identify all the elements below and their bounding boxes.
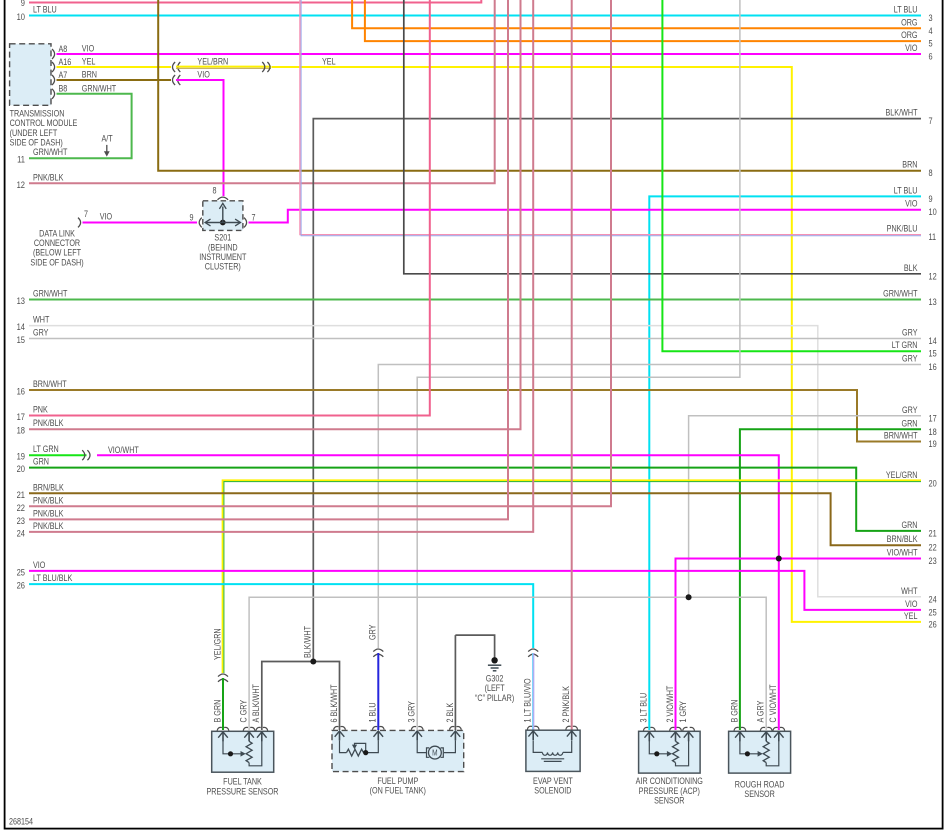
ACP sensor pin 2 entry [670, 727, 675, 730]
svg-text:1 LT BLU/VIO: 1 LT BLU/VIO [523, 678, 533, 722]
svg-text:VIO/WHT: VIO/WHT [108, 445, 139, 455]
svg-text:G302: G302 [486, 674, 504, 684]
svg-text:LT BLU: LT BLU [894, 186, 918, 196]
wire 19 LT GRN stub [29, 454, 87, 456]
svg-text:8: 8 [212, 186, 216, 196]
wire BRN vertical from top to right 8 [158, 0, 921, 171]
TCM pin B8 [52, 89, 55, 99]
rough road sensor pin C entry [773, 727, 778, 730]
wire BLK from fuel pump pin 2 up [454, 635, 456, 730]
svg-text:WHT: WHT [33, 315, 49, 325]
wire VIO from connector down to S201 pin 8 [176, 80, 224, 196]
svg-text:GRY: GRY [33, 328, 49, 338]
svg-text:VIO: VIO [905, 199, 917, 209]
svg-text:14: 14 [17, 321, 26, 332]
wire YEL to right 26 [272, 67, 922, 622]
fuel tank pressure sensor box [212, 731, 274, 772]
svg-text:6 BLK/WHT: 6 BLK/WHT [329, 684, 339, 722]
wire GRY splice: fuel tank pin C to rough road pin A and right 17/24 [249, 597, 766, 730]
svg-text:ORG: ORG [901, 30, 917, 40]
fuel tank sensor pin B entry [217, 727, 222, 730]
svg-text:GRY: GRY [368, 624, 378, 640]
wire GRN/WHT from TCM pin B8 loop to wire 11 [29, 94, 132, 158]
svg-text:VIO: VIO [33, 560, 45, 570]
EVAP vent solenoid box [526, 730, 580, 771]
svg-text:EVAP VENT: EVAP VENT [533, 776, 573, 786]
wire VIO/WHT right 23 from ACP pin 2 corner [676, 559, 922, 731]
svg-text:YEL/GRN: YEL/GRN [886, 470, 918, 480]
data link connector pin 7 [78, 218, 81, 228]
svg-text:LT GRN: LT GRN [33, 445, 59, 455]
wire LT BLU right 9 corner down to ACP sensor pin 3 [649, 196, 921, 730]
svg-text:DATA LINK: DATA LINK [39, 229, 75, 239]
svg-text:2 PNK/BLK: 2 PNK/BLK [561, 685, 571, 722]
svg-text:A/T: A/T [102, 134, 113, 144]
fuel tank sensor potentiometer [223, 741, 241, 754]
svg-text:BRN/BLK: BRN/BLK [33, 483, 64, 493]
rough road sensor pin A entry [760, 727, 765, 730]
svg-text:8: 8 [929, 169, 933, 179]
svg-text:26: 26 [17, 580, 26, 591]
svg-text:YEL/BRN: YEL/BRN [197, 57, 228, 67]
wire BLK/WHT right 7 from corner down to fuel-pump splice [313, 119, 921, 662]
splice S201 box [203, 201, 243, 231]
svg-text:PNK/BLK: PNK/BLK [33, 509, 64, 519]
svg-text:LT BLU: LT BLU [33, 5, 57, 15]
svg-text:YEL: YEL [322, 57, 336, 67]
svg-text:16: 16 [17, 386, 26, 397]
svg-text:10: 10 [929, 208, 938, 218]
wire BLK/WHT splice to fuel tank pin A and fuel pump pin 6 [262, 662, 340, 731]
svg-text:WHT: WHT [901, 586, 917, 596]
fuel pump box [332, 730, 464, 771]
svg-text:BRN: BRN [902, 160, 917, 170]
svg-text:12: 12 [929, 272, 938, 282]
svg-text:SIDE OF DASH): SIDE OF DASH) [10, 138, 64, 148]
svg-text:9: 9 [189, 213, 193, 223]
svg-text:11: 11 [17, 154, 25, 165]
svg-text:PNK/BLK: PNK/BLK [33, 419, 64, 429]
svg-text:YEL/GRN: YEL/GRN [213, 628, 223, 660]
svg-text:BRN: BRN [82, 70, 97, 80]
wire YEL/GRN right 20 corner down to fuel tank sensor pin B (two-tone) [223, 480, 922, 673]
svg-text:PRESSURE (ACP): PRESSURE (ACP) [639, 786, 701, 796]
air conditioning pressure sensor box [639, 731, 701, 773]
ACP sensor potentiometer [649, 741, 667, 754]
junction BLK/WHT splice [310, 659, 316, 665]
svg-text:SIDE OF DASH): SIDE OF DASH) [30, 258, 84, 268]
wire 26 LT BLU/BLK corner down to EVAP solenoid [29, 584, 533, 648]
A/T arrow [106, 145, 108, 152]
svg-text:6: 6 [929, 52, 933, 62]
svg-text:PNK: PNK [33, 405, 48, 415]
wire 25 VIO to right 25 via vertical [29, 571, 921, 610]
svg-text:CONTROL MODULE: CONTROL MODULE [10, 119, 78, 129]
S201 pin 9 arc [199, 218, 202, 228]
svg-text:PRESSURE SENSOR: PRESSURE SENSOR [206, 787, 278, 797]
wire VIO right 10 from S201 pin 7 with jog [249, 210, 922, 223]
svg-text:3 GRY: 3 GRY [407, 700, 417, 722]
svg-text:C VIO/WHT: C VIO/WHT [769, 684, 779, 722]
svg-text:GRY: GRY [902, 354, 918, 364]
svg-text:(BEHIND: (BEHIND [208, 243, 238, 253]
svg-text:PNK/BLU: PNK/BLU [887, 224, 918, 234]
svg-text:S201: S201 [214, 233, 231, 243]
svg-text:25: 25 [17, 567, 26, 578]
fuel level sender variable resistor [340, 741, 347, 753]
junction VIO/WHT wires [776, 556, 782, 562]
svg-text:INSTRUMENT: INSTRUMENT [199, 252, 246, 262]
inline connector GRY to BLU [373, 649, 383, 652]
svg-text:22: 22 [17, 502, 26, 513]
svg-text:9: 9 [21, 0, 25, 8]
wire GRN to fuel tank sensor pin B [222, 678, 224, 730]
svg-text:3 LT BLU: 3 LT BLU [639, 693, 649, 723]
svg-text:BRN/WHT: BRN/WHT [33, 379, 67, 389]
transmission control module box [10, 44, 51, 106]
wire BRN from TCM pin A7 [57, 79, 172, 81]
svg-text:BRN/BLK: BRN/BLK [887, 535, 918, 545]
svg-text:A BLK/WHT: A BLK/WHT [252, 684, 262, 723]
svg-text:CLUSTER): CLUSTER) [205, 262, 241, 272]
svg-text:B GRN: B GRN [213, 700, 223, 723]
wire GRY right 17 corner down to splice with WHT [689, 416, 921, 597]
wire LT GRN right 15 from top [662, 0, 921, 351]
svg-text:ORG: ORG [901, 18, 917, 28]
svg-text:B GRN: B GRN [730, 700, 740, 723]
wire 17 PNK to top [29, 0, 430, 416]
svg-text:23: 23 [17, 515, 26, 526]
svg-text:20: 20 [929, 479, 938, 489]
fuel pump pin 2 entry [450, 726, 455, 729]
svg-text:3: 3 [929, 13, 933, 23]
svg-text:1 GRY: 1 GRY [678, 700, 688, 722]
svg-text:(UNDER LEFT: (UNDER LEFT [10, 128, 58, 138]
svg-text:LT GRN: LT GRN [892, 341, 918, 351]
svg-text:SOLENOID: SOLENOID [534, 786, 571, 796]
svg-text:23: 23 [929, 556, 938, 566]
S201 pin 7 arc [244, 218, 247, 228]
wire 23 PNK/BLK to top [29, 0, 508, 519]
svg-text:VIO: VIO [197, 70, 209, 80]
svg-text:A8: A8 [59, 44, 68, 54]
inline connector on YEL wire [173, 62, 176, 72]
svg-text:(BELOW LEFT: (BELOW LEFT [33, 248, 81, 258]
svg-text:24: 24 [929, 595, 938, 605]
wire 20 GRN to right 21 via vertical [29, 468, 921, 531]
wire 21 BRN/BLK to right 22 via vertical [29, 493, 921, 545]
wire 14 WHT to right 24 via vertical [29, 326, 921, 597]
svg-text:(ON FUEL TANK): (ON FUEL TANK) [370, 786, 427, 796]
svg-text:13: 13 [17, 295, 26, 306]
svg-text:19: 19 [17, 451, 26, 462]
svg-text:VIO: VIO [82, 44, 94, 54]
svg-text:GRN/WHT: GRN/WHT [33, 289, 67, 299]
wire YEL/BRN segment two-tone [176, 66, 271, 68]
rough road sensor box [729, 731, 791, 773]
svg-text:BLK/WHT: BLK/WHT [303, 626, 313, 658]
wire GRY from top down to jog for fuel pump pin 3 [417, 0, 740, 730]
svg-text:12: 12 [17, 179, 26, 190]
inline connector LT GRN to VIO/WHT [87, 450, 90, 460]
svg-text:GRY: GRY [902, 405, 918, 415]
wire GRN right 18 corner down to rough road sensor pin B [740, 429, 921, 730]
svg-text:GRN: GRN [901, 419, 917, 429]
svg-text:9: 9 [929, 194, 933, 204]
wire 22 PNK/BLK to top [29, 0, 611, 506]
wire LT BLU/VIO to EVAP solenoid pin 1 [532, 653, 534, 730]
wire VIO right 6 from TCM pin A8 [57, 53, 922, 55]
fuel pump pin 3 entry [411, 726, 416, 729]
svg-text:(LEFT: (LEFT [485, 684, 505, 694]
svg-text:“C” PILLAR): “C” PILLAR) [475, 693, 515, 703]
wire PNK/BLU right 11 from top [300, 0, 921, 235]
svg-text:268154: 268154 [9, 817, 34, 827]
wire YEL from TCM pin A16 [57, 66, 172, 68]
svg-text:16: 16 [929, 362, 938, 372]
svg-text:PNK/BLK: PNK/BLK [33, 496, 64, 506]
wire 18 PNK/BLK to top [29, 0, 521, 429]
wire BLK to ground G302 [455, 635, 494, 657]
TCM pin A8 [52, 49, 55, 59]
wire 12 PNK/BLK to top [29, 0, 495, 183]
svg-text:13: 13 [929, 297, 938, 307]
wire 24 PNK/BLK to top [29, 0, 533, 532]
rough road sensor potentiometer [740, 741, 758, 754]
svg-text:24: 24 [17, 528, 26, 539]
svg-text:25: 25 [929, 608, 938, 618]
fuel pump motor [417, 741, 426, 753]
svg-text:VIO/WHT: VIO/WHT [887, 548, 918, 558]
svg-text:7: 7 [84, 209, 88, 219]
svg-text:22: 22 [929, 543, 938, 553]
wire 9 PNK turn up to top [480, 0, 482, 4]
svg-text:M: M [432, 748, 437, 758]
wire 16 BRN/WHT to right 19 via vertical [29, 390, 921, 442]
svg-text:18: 18 [929, 427, 938, 437]
ground G302 [491, 657, 497, 663]
wire BLU to fuel pump pin 1 [377, 653, 379, 730]
svg-text:5: 5 [929, 39, 933, 49]
svg-text:TRANSMISSION: TRANSMISSION [10, 109, 65, 119]
svg-text:GRY: GRY [902, 328, 918, 338]
wire VIO from DLC to S201 pin 9 [83, 222, 198, 224]
svg-text:4: 4 [929, 26, 933, 36]
wire GRY right 16 corner down to fuel pump pin 1 [378, 365, 921, 649]
wire ORG right 5 from top [365, 0, 921, 41]
svg-text:20: 20 [17, 463, 26, 474]
svg-text:19: 19 [929, 439, 938, 449]
svg-text:BRN/WHT: BRN/WHT [884, 431, 918, 441]
svg-text:VIO: VIO [905, 43, 917, 53]
svg-text:VIO: VIO [100, 212, 112, 222]
ACP sensor pin 1 entry [683, 727, 688, 730]
svg-text:17: 17 [929, 414, 938, 424]
svg-text:YEL: YEL [82, 57, 96, 67]
inline connector LT BLU/BLK to LT BLU/VIO [528, 649, 538, 652]
svg-text:15: 15 [17, 334, 26, 345]
junction GRY/WHT wires [686, 594, 692, 600]
wire BLK right 12 from top [404, 0, 921, 274]
svg-text:BLK/WHT: BLK/WHT [885, 108, 917, 118]
wire 15 GRY full width to right 14 [29, 338, 921, 340]
svg-text:GRN/WHT: GRN/WHT [883, 289, 917, 299]
svg-text:11: 11 [929, 232, 937, 242]
svg-text:FUEL TANK: FUEL TANK [223, 777, 262, 787]
fuel tank sensor pin A entry [256, 727, 261, 730]
svg-text:FUEL PUMP: FUEL PUMP [377, 776, 418, 786]
wire ORG right 4 from top [352, 0, 921, 28]
fuel pump pin 1 entry [372, 726, 377, 729]
svg-text:C GRY: C GRY [239, 699, 249, 722]
svg-text:7: 7 [252, 213, 256, 223]
svg-text:SENSOR: SENSOR [744, 789, 775, 799]
svg-text:PNK/BLK: PNK/BLK [33, 521, 64, 531]
svg-text:A7: A7 [59, 70, 68, 80]
wire 13 GRN/WHT full width [29, 299, 921, 301]
svg-text:PNK/BLK: PNK/BLK [33, 173, 64, 183]
svg-text:GRN/WHT: GRN/WHT [33, 148, 67, 158]
svg-text:A GRY: A GRY [756, 700, 766, 722]
svg-text:7: 7 [929, 116, 933, 126]
inline connector YEL/BRN to YEL [267, 62, 270, 72]
S201 pin 8 arc [218, 197, 229, 200]
fuel tank sensor pin C entry [243, 727, 248, 730]
solenoid coil [533, 741, 542, 753]
wire 9 PNK horizontal [29, 2, 481, 4]
svg-text:14: 14 [929, 336, 938, 346]
S201 internal arrows [220, 220, 226, 226]
svg-text:2 VIO/WHT: 2 VIO/WHT [665, 686, 675, 723]
svg-text:B8: B8 [59, 84, 68, 94]
svg-text:LT BLU/BLK: LT BLU/BLK [33, 573, 73, 583]
svg-text:LT BLU: LT BLU [894, 5, 918, 15]
svg-text:21: 21 [17, 489, 26, 500]
svg-text:15: 15 [929, 349, 938, 359]
svg-text:VIO: VIO [905, 599, 917, 609]
svg-text:2 BLK: 2 BLK [445, 702, 455, 722]
svg-text:18: 18 [17, 425, 26, 436]
svg-text:ROUGH ROAD: ROUGH ROAD [735, 780, 785, 790]
fuel pump pin 6 entry [334, 726, 339, 729]
svg-text:17: 17 [17, 411, 26, 422]
svg-text:SENSOR: SENSOR [654, 796, 685, 806]
svg-text:GRN/WHT: GRN/WHT [82, 84, 116, 94]
wire 19 VIO/WHT down to rough road sensor pin C [97, 455, 779, 730]
TCM pin A7 [52, 75, 55, 85]
wire 10 / right 3 LT BLU full width [29, 15, 921, 17]
svg-text:1 BLU: 1 BLU [368, 702, 378, 722]
inline connector YEL/GRN to GRN [218, 674, 228, 677]
svg-text:YEL: YEL [904, 611, 918, 621]
EVAP solenoid pin 2 entry [566, 726, 571, 729]
ACP sensor pin 3 entry [643, 727, 648, 730]
wire PNK/BLK from top to EVAP pin 2 [571, 0, 573, 730]
svg-text:A16: A16 [59, 57, 72, 67]
inline connector on BRN wire [173, 75, 176, 85]
svg-text:21: 21 [929, 529, 938, 539]
svg-text:CONNECTOR: CONNECTOR [34, 238, 80, 248]
rough road sensor pin B entry [734, 727, 739, 730]
svg-text:10: 10 [17, 11, 26, 22]
svg-text:GRN: GRN [901, 520, 917, 530]
EVAP solenoid pin 1 entry [527, 726, 532, 729]
svg-text:BLK: BLK [904, 263, 918, 273]
svg-text:26: 26 [929, 620, 938, 630]
svg-text:AIR CONDITIONING: AIR CONDITIONING [636, 777, 703, 787]
svg-text:GRN: GRN [33, 457, 49, 467]
TCM pin A16 [52, 62, 55, 72]
